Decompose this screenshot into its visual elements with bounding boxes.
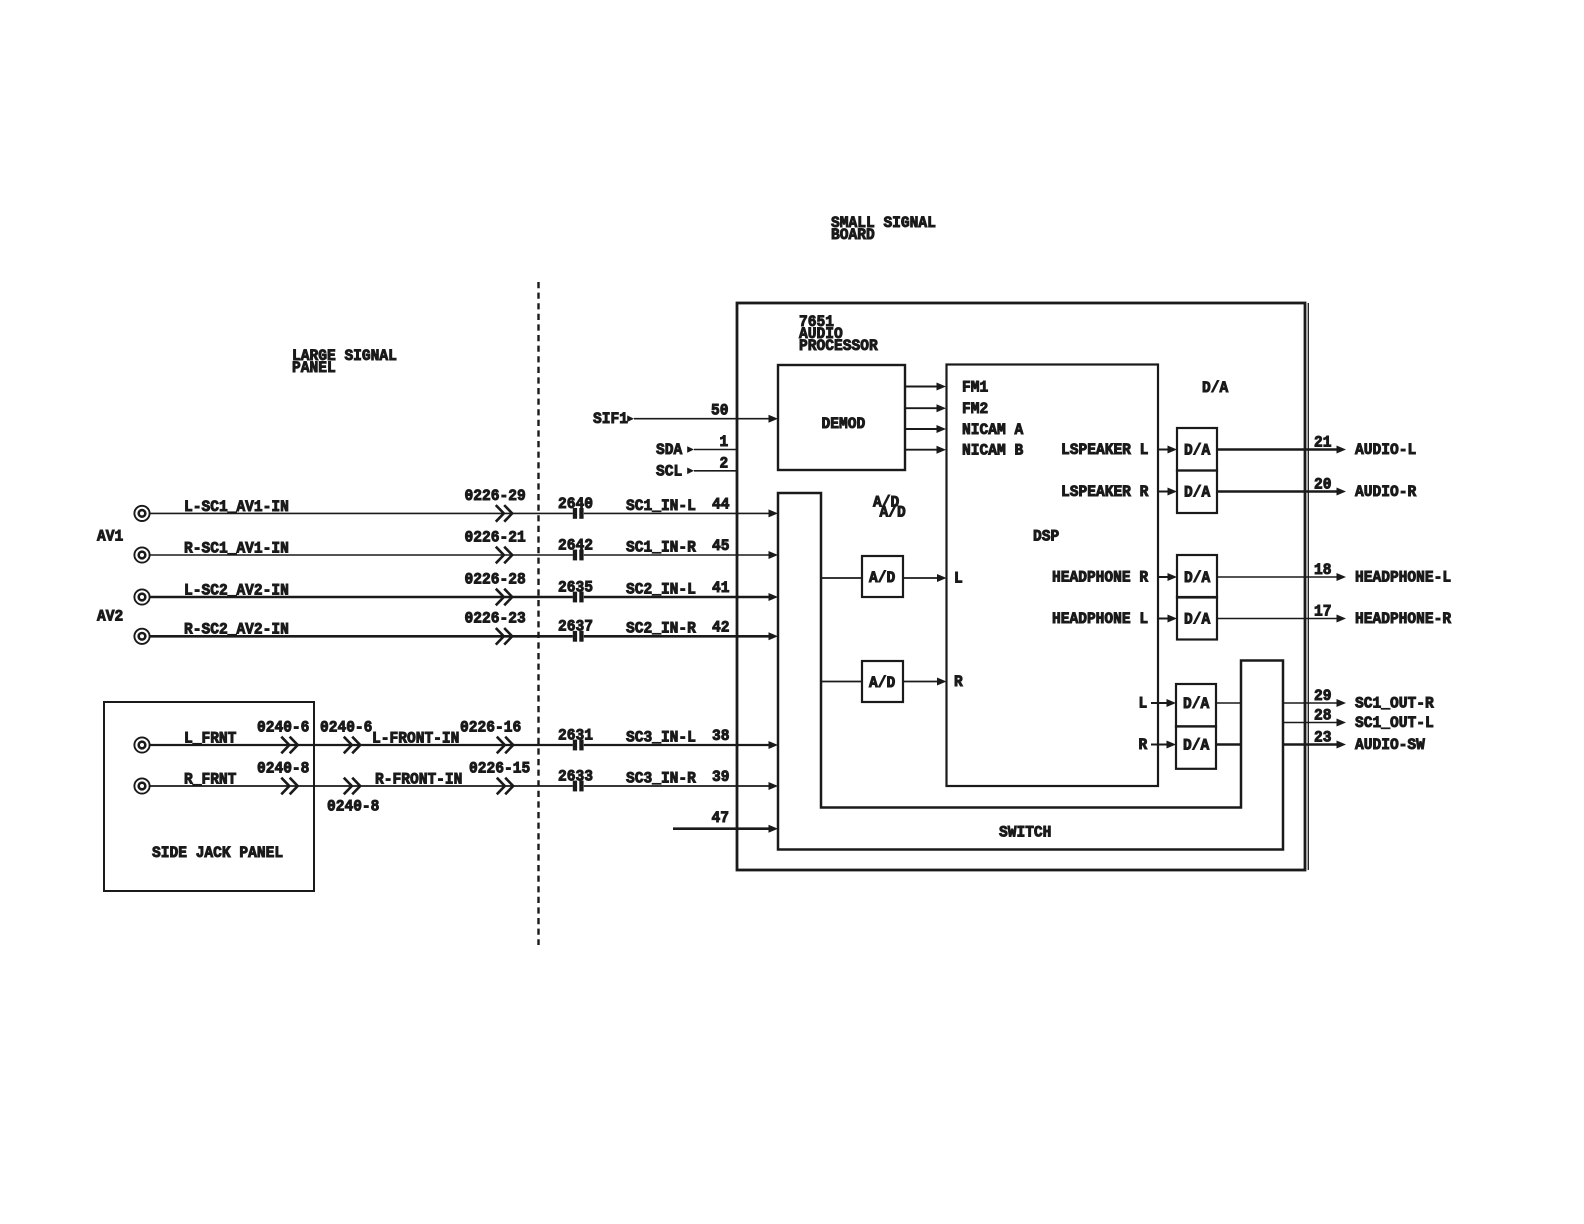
- svg-text:D/A: D/A: [1184, 484, 1211, 502]
- svg-text:2635: 2635: [558, 578, 593, 596]
- svg-text:39: 39: [712, 768, 730, 786]
- wire SC1_IN-R pin 45: [584, 537, 778, 559]
- svg-text:AUDIO-L: AUDIO-L: [1355, 441, 1416, 459]
- svg-text:R-SC2_AV2-IN: R-SC2_AV2-IN: [184, 621, 289, 639]
- pin label FM2: [962, 400, 988, 418]
- wire SIF1 pin 50: [593, 402, 778, 429]
- svg-text:2633: 2633: [558, 767, 593, 785]
- svg-text:SIDE JACK PANEL: SIDE JACK PANEL: [152, 844, 283, 862]
- svg-text:2637: 2637: [558, 618, 593, 636]
- svg-text:FM1: FM1: [962, 378, 988, 396]
- svg-text:HEADPHONE-R: HEADPHONE-R: [1355, 610, 1452, 628]
- pin label FM1: [962, 378, 988, 396]
- switch block U1 SWITCH outline: [778, 493, 1283, 850]
- svg-text:50: 50: [711, 402, 729, 420]
- capacitor C2637: [558, 618, 593, 642]
- wire SCL pin 2: [656, 454, 737, 480]
- wire SC2_IN-L pin 41: [584, 579, 778, 601]
- label LSPEAKER L: [1061, 441, 1148, 459]
- wire L_FRNT: [150, 729, 573, 747]
- wire SDA pin 1: [656, 433, 737, 459]
- pin label R (DSP right): [1139, 736, 1148, 754]
- svg-text:R: R: [1139, 736, 1148, 754]
- connector jack L_FRNT: [134, 737, 149, 752]
- svg-text:20: 20: [1314, 475, 1332, 493]
- svg-text:R-FRONT-IN: R-FRONT-IN: [375, 770, 462, 788]
- pin label R (DSP left): [954, 673, 963, 691]
- a/d converter U3 box: [862, 661, 903, 702]
- title label SMALL SIGNAL BOARD: [831, 214, 936, 244]
- label LSPEAKER R: [1061, 483, 1149, 501]
- svg-text:0226-23: 0226-23: [465, 610, 526, 628]
- svg-text:D/A: D/A: [1184, 442, 1211, 460]
- svg-text:0226-21: 0226-21: [465, 528, 526, 546]
- svg-text:45: 45: [712, 537, 730, 555]
- wire R-SC1_AV1-IN: [150, 539, 573, 557]
- svg-text:21: 21: [1314, 433, 1332, 451]
- svg-text:D/A: D/A: [1202, 379, 1229, 397]
- wire A/D U2 to DSP L: [903, 574, 947, 582]
- connector 0240-8 chevron (panel): [257, 759, 309, 794]
- svg-text:SC3_IN-L: SC3_IN-L: [626, 728, 696, 746]
- wire DSP to D/A at y618.5: [1158, 615, 1177, 623]
- svg-text:47: 47: [712, 809, 730, 827]
- label HEADPHONE L: [1052, 610, 1148, 628]
- wire SC2_IN-R pin 42: [584, 618, 778, 640]
- svg-text:R-SC1_AV1-IN: R-SC1_AV1-IN: [184, 539, 289, 557]
- svg-text:1: 1: [720, 433, 729, 451]
- label SIDE JACK PANEL: [152, 844, 283, 862]
- wire switch to pin 28 SC1_OUT-L: [1283, 706, 1434, 732]
- connector jack R-SC1_AV1-IN: [134, 547, 149, 562]
- svg-text:HEADPHONE-L: HEADPHONE-L: [1355, 569, 1451, 587]
- svg-text:L: L: [954, 570, 963, 588]
- svg-text:SC1_OUT-L: SC1_OUT-L: [1355, 714, 1434, 732]
- wire A/D U3 to DSP R: [903, 678, 947, 686]
- d/a converter U9 box: [1176, 726, 1216, 769]
- connector 0226-16 chevron: [460, 718, 521, 753]
- svg-text:R_FRNT: R_FRNT: [184, 770, 237, 788]
- svg-text:D/A: D/A: [1184, 611, 1211, 629]
- svg-text:L-FRONT-IN: L-FRONT-IN: [372, 729, 459, 747]
- label AV1: [97, 528, 123, 546]
- wire label L-FRONT-IN: [372, 729, 459, 747]
- svg-text:41: 41: [712, 579, 730, 597]
- wire DEMOD to DSP NICAM B: [905, 446, 946, 454]
- wire R_FRNT: [150, 770, 573, 788]
- wire L-SC2_AV2-IN: [150, 581, 573, 599]
- wire D/A output pin 21 AUDIO-L: [1217, 433, 1416, 459]
- svg-text:SWITCH: SWITCH: [999, 824, 1051, 842]
- svg-text:2642: 2642: [558, 536, 593, 554]
- wire DEMOD to DSP FM2: [905, 404, 946, 412]
- svg-text:SIF1: SIF1: [593, 410, 628, 428]
- svg-text:A/D: A/D: [869, 674, 895, 692]
- svg-text:AUDIO-SW: AUDIO-SW: [1355, 736, 1425, 754]
- svg-text:DEMOD: DEMOD: [822, 415, 866, 433]
- svg-text:SC1_IN-L: SC1_IN-L: [626, 497, 696, 515]
- capacitor C2633: [558, 767, 593, 791]
- svg-text:0240-8: 0240-8: [327, 798, 379, 816]
- svg-text:LSPEAKER L: LSPEAKER L: [1061, 441, 1148, 459]
- side jack panel box: [104, 702, 314, 891]
- pin label L (DSP right): [1139, 695, 1148, 713]
- svg-text:SDA: SDA: [656, 441, 683, 459]
- svg-text:L-SC1_AV1-IN: L-SC1_AV1-IN: [184, 498, 289, 516]
- svg-text:NICAM A: NICAM A: [962, 421, 1024, 439]
- svg-text:2640: 2640: [558, 495, 593, 513]
- wire D/A U9 to switch: [1216, 743, 1241, 745]
- svg-text:SC2_IN-L: SC2_IN-L: [626, 580, 696, 598]
- svg-text:18: 18: [1314, 561, 1332, 579]
- wire DSP to D/A at y703: [1151, 699, 1176, 707]
- connector 0240-8 chevron (chassis): [327, 778, 379, 816]
- connector 0240-6 chevron (chassis): [320, 718, 372, 753]
- svg-text:SC1_IN-R: SC1_IN-R: [626, 538, 696, 556]
- wire DSP to D/A at y577: [1158, 573, 1177, 581]
- d/a converter U5 box: [1177, 471, 1217, 514]
- capacitor C2640: [558, 495, 593, 519]
- wire D/A U8 to switch: [1216, 702, 1241, 704]
- label DSP: [1033, 528, 1059, 546]
- block DEMOD outline: [778, 365, 905, 470]
- wire DSP to D/A at y491.5: [1158, 488, 1177, 496]
- svg-text:0226-29: 0226-29: [465, 487, 526, 505]
- d/a converter U4 box: [1177, 428, 1217, 471]
- svg-text:0240-8: 0240-8: [257, 759, 309, 777]
- svg-text:28: 28: [1314, 706, 1332, 724]
- svg-text:SCL: SCL: [656, 462, 682, 480]
- wire SC3_IN-L pin 38: [584, 727, 778, 749]
- svg-text:HEADPHONE R: HEADPHONE R: [1052, 569, 1149, 587]
- svg-text:DSP: DSP: [1033, 528, 1059, 546]
- label SWITCH: [999, 824, 1051, 842]
- wire switch to A/D U2: [821, 577, 862, 579]
- svg-text:17: 17: [1314, 602, 1332, 620]
- capacitor C2642: [558, 536, 593, 560]
- dashed panel separator line: [537, 282, 539, 945]
- wire DSP to D/A at y449.5: [1158, 446, 1177, 454]
- svg-text:L-SC2_AV2-IN: L-SC2_AV2-IN: [184, 581, 289, 599]
- svg-text:A/D: A/D: [880, 504, 906, 522]
- svg-text:0240-6: 0240-6: [257, 718, 309, 736]
- svg-text:2: 2: [720, 454, 729, 472]
- connector 0226-29 chevron: [465, 487, 526, 522]
- connector 0226-15 chevron: [469, 759, 530, 794]
- svg-text:BOARD: BOARD: [831, 226, 875, 244]
- wire DSP to D/A at y744.5: [1151, 741, 1176, 749]
- pin label L (DSP left): [954, 570, 963, 588]
- wire label R-FRONT-IN: [375, 770, 462, 788]
- board outline SMALL SIGNAL BOARD: [737, 303, 1305, 870]
- connector 0226-21 chevron: [465, 528, 526, 563]
- svg-text:NICAM B: NICAM B: [962, 442, 1024, 460]
- svg-text:PROCESSOR: PROCESSOR: [799, 337, 878, 355]
- connector jack L-SC1_AV1-IN: [134, 506, 149, 521]
- pin label NICAM A: [962, 421, 1024, 439]
- svg-text:LSPEAKER R: LSPEAKER R: [1061, 483, 1149, 501]
- svg-text:0226-16: 0226-16: [460, 718, 521, 736]
- connector jack L-SC2_AV2-IN: [134, 589, 149, 604]
- svg-text:R: R: [954, 673, 963, 691]
- label A/D (upper ghost): [873, 494, 899, 512]
- svg-text:38: 38: [712, 727, 730, 745]
- svg-text:D/A: D/A: [1183, 737, 1210, 755]
- wire D/A output pin 20 AUDIO-R: [1217, 475, 1417, 501]
- svg-text:FM2: FM2: [962, 400, 988, 418]
- connector 0226-23 chevron: [465, 610, 526, 645]
- wire switch to pin 23 AUDIO-SW: [1283, 728, 1425, 754]
- block DSP outline: [947, 365, 1159, 787]
- svg-text:L_FRNT: L_FRNT: [184, 729, 237, 747]
- title label LARGE SIGNAL PANEL: [292, 347, 397, 377]
- svg-text:AV2: AV2: [97, 608, 123, 626]
- svg-text:44: 44: [712, 495, 730, 513]
- label DEMOD: [822, 415, 866, 433]
- pin label NICAM B: [962, 442, 1024, 460]
- d/a converter U8 box: [1176, 684, 1216, 727]
- label AV2: [97, 608, 123, 626]
- svg-text:AUDIO-R: AUDIO-R: [1355, 483, 1417, 501]
- connector 0226-28 chevron: [465, 570, 526, 605]
- wire SC1_IN-L pin 44: [584, 495, 778, 517]
- connector jack R-SC2_AV2-IN: [134, 629, 149, 644]
- connector jack R_FRNT: [134, 778, 149, 793]
- svg-text:SC3_IN-R: SC3_IN-R: [626, 769, 696, 787]
- svg-text:0226-15: 0226-15: [469, 759, 530, 777]
- label D/A column header: [1202, 379, 1229, 397]
- d/a converter U7 box: [1177, 597, 1217, 640]
- svg-text:A/D: A/D: [869, 569, 895, 587]
- wire DEMOD to DSP NICAM A: [905, 425, 946, 433]
- capacitor C2631: [558, 726, 593, 750]
- label HEADPHONE R: [1052, 569, 1149, 587]
- svg-text:SC1_OUT-R: SC1_OUT-R: [1355, 695, 1434, 713]
- wire L-SC1_AV1-IN: [150, 498, 573, 516]
- svg-text:23: 23: [1314, 728, 1332, 746]
- svg-text:0240-6: 0240-6: [320, 718, 372, 736]
- svg-text:L: L: [1139, 695, 1148, 713]
- svg-text:2631: 2631: [558, 726, 593, 744]
- wire D/A output pin 17 HEADPHONE-R: [1217, 602, 1452, 628]
- wire DEMOD to DSP FM1: [905, 383, 946, 391]
- svg-text:AV1: AV1: [97, 528, 123, 546]
- svg-text:D/A: D/A: [1183, 695, 1210, 713]
- capacitor C2635: [558, 578, 593, 602]
- svg-text:PANEL: PANEL: [292, 359, 336, 377]
- svg-text:29: 29: [1314, 687, 1332, 705]
- wire D/A output pin 18 HEADPHONE-L: [1217, 561, 1451, 587]
- wire switch to A/D U3: [821, 681, 862, 683]
- svg-text:D/A: D/A: [1184, 569, 1211, 587]
- wire SC3_IN-R pin 39: [584, 768, 778, 790]
- svg-text:HEADPHONE L: HEADPHONE L: [1052, 610, 1148, 628]
- wire R-SC2_AV2-IN: [150, 621, 573, 639]
- label 7651 AUDIO PROCESSOR: [799, 313, 878, 355]
- svg-text:42: 42: [712, 618, 730, 636]
- svg-text:0226-28: 0226-28: [465, 570, 526, 588]
- connector 0240-6 chevron (panel): [257, 718, 309, 753]
- board right edge shadow line: [1307, 303, 1309, 870]
- wire pin 47 to switch: [673, 809, 778, 833]
- wire switch to pin 29 SC1_OUT-R: [1283, 687, 1434, 713]
- label A/D (lower ghost): [880, 504, 906, 522]
- a/d converter U2 box: [862, 556, 903, 597]
- d/a converter U6 box: [1177, 555, 1217, 598]
- svg-text:SC2_IN-R: SC2_IN-R: [626, 620, 696, 638]
